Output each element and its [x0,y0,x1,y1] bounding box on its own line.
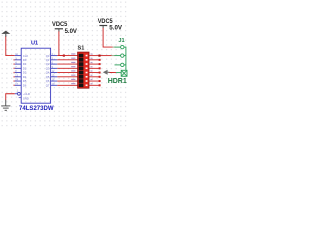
J1 pin 1 circle [121,45,124,48]
power symbol VDC5 #2 [98,18,114,28]
wire VDC5 #1 down to row-1 net [59,31,64,55]
svg-text:D3: D3 [23,71,27,75]
wire arrow to J1 pin 4 [110,72,117,74]
input terminal arrow (top-left) [1,31,10,37]
svg-text:Q7: Q7 [46,83,50,87]
J1 pin 2 stub [115,55,121,57]
wire U1 Q1 to S1 row 2 [57,59,77,61]
power symbol VDC5 #1 [52,21,68,32]
U1 left pin stubs D0-D7 [15,56,22,86]
S1 switch 5 [79,71,88,75]
U1 right pin stubs Q0-Q7 [51,56,58,86]
svg-text:Q2: Q2 [46,62,50,66]
svg-text:VDC5: VDC5 [52,21,68,28]
U1 right pin names [46,54,50,88]
unconnected left pin end markers [13,59,14,86]
wire U1 Q3 to S1 row 4 [57,67,77,69]
wire U1 Q6 to S1 row 7 [57,80,77,82]
svg-text:5.0V: 5.0V [109,25,123,32]
DIP switch S1 body [78,52,89,88]
S1 switch 2 [79,58,88,62]
svg-text:S1: S1 [78,45,85,51]
S1 switch 4 [79,66,88,70]
S1 switch 7 [79,79,88,83]
svg-text:D0: D0 [23,58,27,62]
wire U1 Q7 to S1 row 8 [57,84,77,86]
junction at S1 row 1 output [98,55,100,57]
wire VDC5 #2 to J1 pin 1 [103,28,112,47]
wire blend into J1 pin 2 stub [112,55,116,57]
U1 GND pin mark [19,97,22,99]
svg-text:J1: J1 [118,38,124,44]
J1 pin 4 hatched box [121,70,127,76]
ground symbol [1,100,10,111]
svg-text:Q3: Q3 [46,66,50,70]
svg-text:Q5: Q5 [46,75,50,79]
svg-text:~CLR: ~CLR [23,92,30,96]
wire blend into J1 pin 1 stub [113,46,116,48]
J1 pin 2 circle [121,54,124,57]
S1 right pin numbers [91,53,93,84]
svg-text:GND: GND [23,96,29,100]
J1 pin 1 stub [115,46,121,48]
svg-text:D4: D4 [23,75,27,79]
wire U1 ~CLR pin to ground [6,94,15,100]
IC U1 body [21,48,50,103]
svg-text:74LS273DW: 74LS273DW [19,105,54,112]
S1 switch 8 [79,83,88,87]
wire S1 row 1 to J1 pin 2 [101,55,112,57]
svg-text:D6: D6 [23,83,27,87]
wire U1 Q0 to S1 row 1 [57,55,77,57]
junction at VDC5 #1 tap [63,55,65,57]
S1 switch 3 [79,62,88,66]
U1 ~CLR pin with inversion bubble [15,92,21,95]
J1 spine [124,47,126,74]
svg-text:U1: U1 [31,40,38,46]
S1 left pin numbers [71,53,75,84]
svg-text:Q1: Q1 [46,58,50,62]
wire from input arrow to U1 CLK pin [6,37,15,56]
U1 right pin numbers [52,53,55,86]
S1 switch 1 [79,54,88,58]
U1 left pin names [23,54,30,101]
svg-text:CLK: CLK [23,54,28,58]
svg-text:5.0V: 5.0V [65,29,77,35]
S1 right pin stubs [89,56,100,86]
svg-text:D1: D1 [23,62,27,66]
S1 switch 6 [79,75,88,79]
svg-text:Q0: Q0 [46,54,50,58]
wire U1 Q5 to S1 row 6 [57,76,77,78]
svg-text:Q6: Q6 [46,79,50,83]
S1 unconnected right pin end markers [99,59,101,86]
wire U1 Q2 to S1 row 3 [57,63,77,65]
wire U1 Q4 to S1 row 5 [57,72,77,74]
svg-text:HDR1: HDR1 [108,78,127,85]
off-page terminal arrow (left-pointing) [103,70,110,75]
svg-text:Q4: Q4 [46,71,50,75]
J1 pin 4 stub [116,72,121,74]
J1 pin 3 stub [115,64,121,66]
svg-text:D5: D5 [23,79,27,83]
J1 pin 3 circle [121,63,124,66]
U1 left pin numbers [15,53,18,93]
svg-text:D2: D2 [23,66,27,70]
